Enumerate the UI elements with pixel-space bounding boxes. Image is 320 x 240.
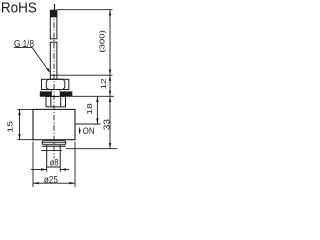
- ext o25 left: [32, 141, 34, 187]
- hex nut: [42, 79, 69, 89]
- wire cable top: [54, 4, 56, 10]
- ext o8 left: [46, 167, 48, 172]
- dim o8 right segment: [60, 169, 69, 171]
- washer seal left bar: [40, 91, 52, 96]
- arrow o8 right: [60, 168, 66, 170]
- arrow down 12 bottom: [109, 91, 111, 97]
- svg-text:(300): (300): [98, 30, 107, 53]
- svg-text:12: 12: [99, 78, 108, 89]
- ext o25 right: [74, 142, 76, 188]
- tube upper segment: [50, 10, 57, 39]
- dimension chain vertical: [109, 10, 111, 149]
- rod tip: [47, 145, 61, 167]
- dimension 15 vertical: [18, 109, 20, 139]
- rod cross line: [41, 149, 62, 151]
- ext 15 bottom: [17, 139, 34, 141]
- svg-text:ø8: ø8: [50, 157, 59, 168]
- ext 15 top: [17, 108, 34, 110]
- arrow o8 left: [41, 168, 47, 170]
- svg-text:18: 18: [85, 103, 94, 115]
- ON arrow: [78, 128, 80, 135]
- svg-text:33: 33: [102, 119, 111, 131]
- svg-text:15: 15: [5, 121, 14, 133]
- ext line mount plane: [40, 95, 114, 97]
- arrow o25 left: [33, 182, 39, 184]
- tube black cap: [50, 10, 57, 17]
- arrow up 12 top: [109, 75, 111, 81]
- ext line 33 bottom: [66, 148, 118, 150]
- ext line thread: [57, 74, 112, 76]
- washer seal right bar: [60, 91, 73, 96]
- tube lower segment: [50, 42, 57, 79]
- arrow down 300 bottom: [109, 70, 111, 76]
- arrow down 33 bottom: [109, 143, 111, 149]
- svg-text:ø25: ø25: [44, 175, 58, 186]
- line under disc: [42, 145, 66, 147]
- ext o8 right: [59, 167, 61, 172]
- ext line top: [57, 9, 113, 11]
- ext line ON level: [75, 123, 101, 125]
- arrow o25 right: [69, 182, 75, 184]
- arrow up 15: [18, 109, 20, 115]
- thread start line: [50, 74, 57, 76]
- arrow down 18: [96, 118, 98, 124]
- arrow up 33 top: [109, 96, 111, 102]
- leader G 1/8: [14, 39, 51, 73]
- neck: [46, 96, 66, 106]
- svg-text:ON: ON: [83, 126, 95, 136]
- arrow up 300 top: [109, 10, 111, 16]
- centerline: [53, 12, 55, 158]
- disc: [42, 141, 66, 145]
- svg-text:RoHS: RoHS: [1, 0, 37, 16]
- svg-text:G 1/8: G 1/8: [14, 39, 34, 50]
- dim o25: [33, 182, 75, 184]
- arrow down 15: [18, 134, 20, 140]
- dim o8 left segment: [31, 168, 47, 170]
- dimension 18 vertical: [96, 96, 98, 124]
- body cylinder: [33, 109, 75, 139]
- arrow up 18: [96, 96, 98, 102]
- thread through washer gap: [51, 89, 53, 91]
